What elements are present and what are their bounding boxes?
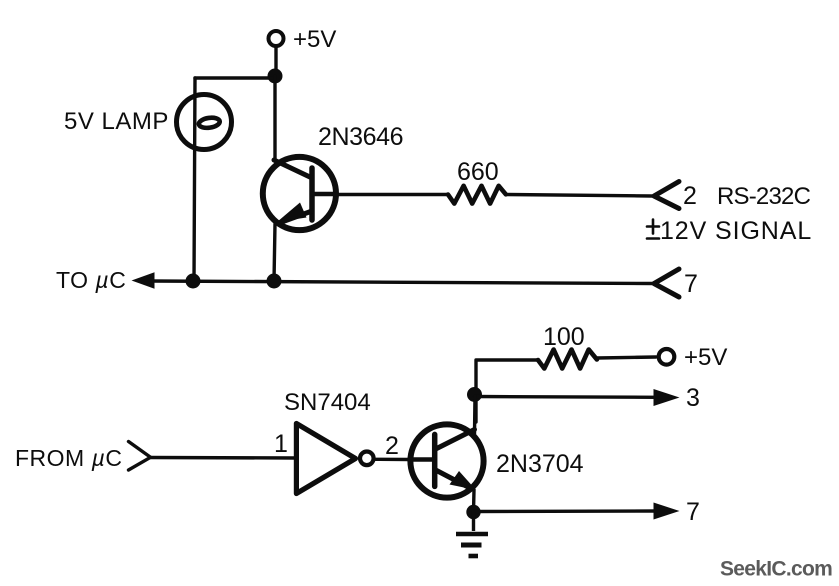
+5V terminal (top)	[269, 31, 284, 46]
wire: junction down to Q1 collector	[273, 76, 276, 161]
lamp filament loop	[198, 116, 220, 129]
wire: bubble to Q2 base	[376, 458, 411, 462]
arrow pin 7 (bottom)	[654, 503, 680, 520]
svg-text:1: 1	[274, 430, 288, 458]
TO uC line (bus wire)	[150, 281, 654, 284]
wire: corner to resistor 100	[476, 360, 538, 422]
wire: lamp branch vertical (through lamp)	[194, 78, 195, 281]
wire: resistor to +5V terminal (bottom)	[597, 357, 656, 358]
wire: pin 3 line	[475, 395, 659, 399]
inverter output bubble	[360, 452, 374, 466]
wire: resistor to pin 2 connector	[506, 195, 652, 197]
node: Q1 branch on TO uC line	[267, 274, 282, 289]
wire: pin 7 line (bottom)	[474, 509, 659, 513]
svg-text:100: 100	[543, 323, 585, 351]
svg-text:660: 660	[457, 158, 499, 186]
node: top junction	[268, 69, 283, 84]
resistor R2 100	[538, 350, 597, 369]
svg-text:SeekIC.com: SeekIC.com	[720, 558, 832, 581]
arrow pin 3	[654, 389, 680, 406]
svg-text:+5V: +5V	[293, 26, 336, 53]
wire: +5V terminal to junction	[274, 47, 277, 76]
wire: Q2 emitter to ground node	[472, 490, 476, 512]
resistor R1 660	[448, 186, 506, 204]
node: emitter/ground junction	[466, 505, 480, 519]
svg-text:3: 3	[686, 384, 700, 412]
svg-text:7: 7	[684, 270, 698, 298]
connector FROM uC	[129, 442, 151, 471]
wire: FROM uC to inverter input	[151, 456, 297, 460]
node: lamp branch on TO uC line	[186, 274, 201, 289]
wire: Q1 base to resistor	[334, 193, 448, 196]
label ±12V SIGNAL (plus-minus drawn)	[652, 220, 655, 234]
svg-text:2N3646: 2N3646	[318, 123, 403, 151]
connector pin 7 (top circuit)	[654, 269, 679, 297]
+5V terminal (bottom)	[659, 349, 675, 365]
connector pin 2 (RS-232C)	[654, 182, 679, 209]
svg-text:+5V: +5V	[684, 344, 727, 371]
svg-text:7: 7	[686, 498, 700, 526]
svg-text:FROM µC: FROM µC	[15, 445, 123, 471]
svg-text:TO µC: TO µC	[56, 267, 126, 293]
svg-text:RS-232C: RS-232C	[717, 183, 811, 210]
arrow to uC (left)	[132, 272, 155, 288]
lamp DS1 5V LAMP	[177, 95, 232, 150]
transistor Q1 2N3646	[263, 157, 336, 230]
svg-text:5V LAMP: 5V LAMP	[64, 108, 169, 135]
svg-text:2: 2	[385, 432, 399, 460]
inverter U1 SN7404	[296, 424, 355, 494]
svg-text:2N3704: 2N3704	[496, 450, 584, 478]
svg-text:2: 2	[683, 182, 697, 210]
svg-text:12V SIGNAL: 12V SIGNAL	[660, 217, 812, 245]
wire: Q1 emitter down to TO uC line	[274, 224, 275, 281]
svg-text:SN7404: SN7404	[284, 389, 371, 416]
ground	[456, 512, 488, 556]
wire: top junction down to Q2 collector	[473, 396, 477, 434]
transistor Q2 2N3704	[409, 424, 484, 497]
wire: junction to lamp branch (horizontal)	[195, 76, 275, 79]
node: Q2 collector junction	[467, 387, 482, 402]
